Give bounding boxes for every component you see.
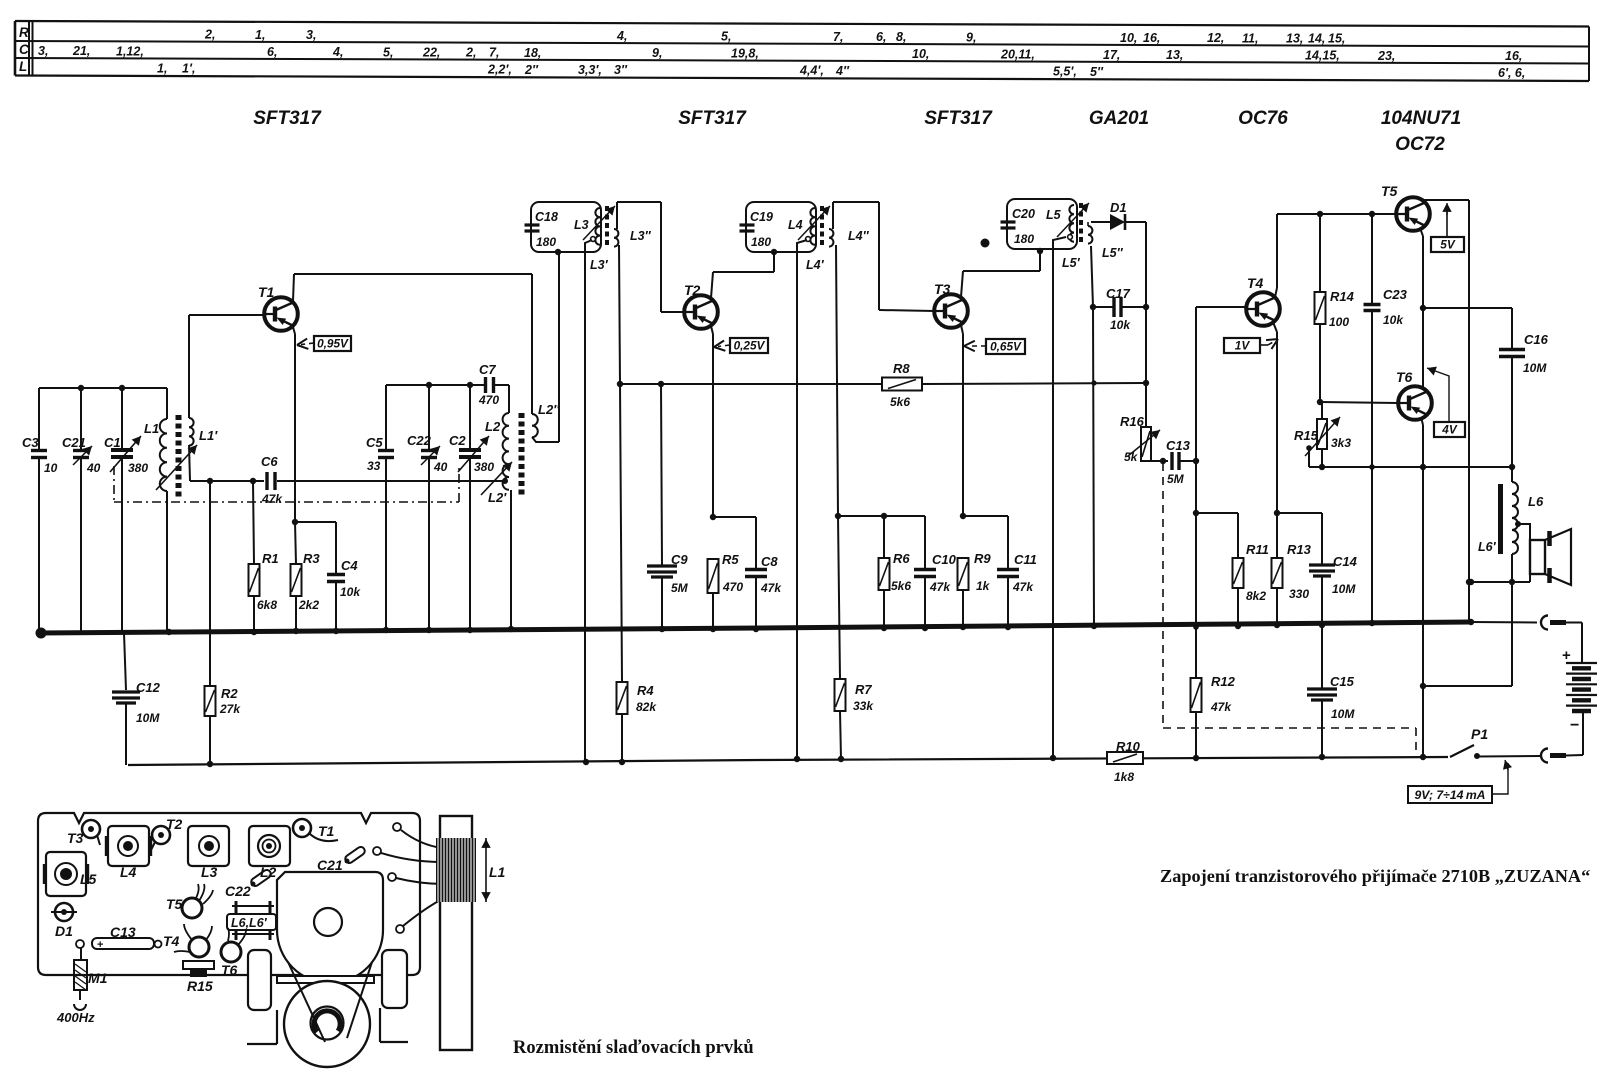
svg-text:13,: 13, <box>1166 48 1183 62</box>
svg-text:9,: 9, <box>652 46 662 60</box>
svg-text:L4″: L4″ <box>848 229 870 243</box>
PCB resistor R15 <box>183 961 214 994</box>
svg-text:L2′: L2′ <box>488 490 507 505</box>
svg-text:D1: D1 <box>1110 200 1127 215</box>
svg-text:380: 380 <box>128 461 148 475</box>
wire: T2 base <box>661 311 685 313</box>
svg-text:180: 180 <box>1014 232 1034 246</box>
wire: top rail to T5 base <box>1277 211 1397 217</box>
wire: oscillator circuit top line <box>386 384 485 386</box>
svg-text:1k: 1k <box>976 579 991 593</box>
svg-text:180: 180 <box>751 235 771 249</box>
svg-text:L3: L3 <box>201 864 218 880</box>
PCB trimmer T1 with wire <box>293 819 338 841</box>
capacitor C12 <box>112 680 161 765</box>
svg-text:5V: 5V <box>1440 238 1456 252</box>
svg-text:R15: R15 <box>187 978 213 994</box>
svg-text:+: + <box>97 939 103 951</box>
wire: T1 base to L1' <box>189 314 265 316</box>
IF transformer box 3 outline <box>1007 199 1077 249</box>
tap on L3 to lower rail (L3') <box>585 237 609 763</box>
svg-text:11,: 11, <box>1242 31 1258 45</box>
svg-text:380: 380 <box>474 460 494 474</box>
core of L1 <box>176 415 182 497</box>
wire: R6/C10 top line <box>838 513 925 519</box>
svg-text:T1: T1 <box>258 284 275 300</box>
core of L5 <box>1079 203 1083 244</box>
resistor R10 (in lower rail) <box>1107 739 1143 784</box>
inductor L3'' <box>614 229 652 247</box>
resistor R12 <box>1191 674 1236 761</box>
svg-text:C6: C6 <box>261 454 278 469</box>
mechanical link dashes (R16 to P1) <box>1163 463 1416 752</box>
svg-text:C: C <box>19 42 29 57</box>
svg-text:M1: M1 <box>88 970 108 986</box>
svg-text:T3: T3 <box>67 830 84 846</box>
svg-text:R10: R10 <box>1116 739 1141 754</box>
wire: L3'' top to T2 base <box>617 202 661 312</box>
capacitor C2 (tuning gang) <box>449 385 494 630</box>
wire: T3 emitter down to R9 node <box>960 325 966 519</box>
capacitor C19 <box>740 210 773 249</box>
svg-text:9V; 7÷14 mA: 9V; 7÷14 mA <box>1414 788 1485 802</box>
svg-text:5k6: 5k6 <box>890 395 910 409</box>
connector (bus to battery plus) <box>1471 616 1582 630</box>
svg-text:C8: C8 <box>761 554 778 569</box>
arrow through L1 (adjustable core) <box>156 445 197 490</box>
svg-text:R2: R2 <box>221 686 238 701</box>
resistor R13 <box>1272 542 1312 625</box>
wire: T3 base <box>879 310 935 311</box>
svg-text:Zapojení tranzistorového přijí: Zapojení tranzistorového přijímače 2710B… <box>1160 866 1590 886</box>
transistor T5 <box>1381 183 1430 231</box>
PCB pot core L4 <box>106 826 151 880</box>
svg-text:16,: 16, <box>1143 31 1160 45</box>
capacitor C16 <box>1423 308 1549 470</box>
resistor R5 <box>708 552 744 629</box>
capacitor C9 <box>647 384 689 629</box>
battery B1 <box>1562 623 1597 756</box>
wire: T4 base down through R12 <box>1193 307 1247 678</box>
svg-text:470: 470 <box>722 580 743 594</box>
PCB right bracket <box>380 950 408 1042</box>
junction dots on lower rail <box>583 759 589 765</box>
svg-text:82k: 82k <box>636 700 657 714</box>
svg-text:33k: 33k <box>853 699 874 713</box>
svg-text:L1′: L1′ <box>199 428 218 443</box>
svg-text:14,: 14, <box>1308 32 1325 46</box>
svg-text:1,: 1, <box>255 28 265 42</box>
inductor L1 (ferrite antenna primary) <box>144 388 167 633</box>
capacitor C3 <box>22 388 58 633</box>
PCB dial pulley <box>284 962 372 1067</box>
svg-text:19,8,: 19,8, <box>731 47 759 61</box>
svg-text:R7: R7 <box>855 682 872 697</box>
svg-text:15,: 15, <box>1328 32 1345 46</box>
resistor R14 <box>1315 214 1355 405</box>
capacitor C18 <box>525 210 558 249</box>
capacitor C10 <box>914 516 957 628</box>
svg-text:Rozmistění slaďovacích prvků: Rozmistění slaďovacích prvků <box>513 1038 754 1058</box>
PCB transistor T6 <box>221 928 246 978</box>
PCB diode D1 <box>51 903 77 939</box>
svg-text:5k6: 5k6 <box>891 579 911 593</box>
core of L3 <box>605 206 609 247</box>
svg-text:1,: 1, <box>157 61 167 75</box>
PCB trimmer C22 pair <box>225 845 366 899</box>
svg-text:1k8: 1k8 <box>1114 770 1134 784</box>
PCB tuning capacitor C21 <box>277 857 383 983</box>
svg-text:L6: L6 <box>1528 494 1544 509</box>
inductor L3 <box>574 208 600 245</box>
junction dots on antenna top line <box>78 385 125 391</box>
svg-text:3,: 3, <box>306 28 316 42</box>
svg-text:47k: 47k <box>929 580 951 594</box>
wire: T2 collector up to IF2 box <box>711 249 777 298</box>
svg-text:10: 10 <box>44 461 58 475</box>
svg-text:C15: C15 <box>1330 674 1355 689</box>
wire: speaker return to bus <box>1468 579 1530 585</box>
svg-text:R14: R14 <box>1330 289 1355 304</box>
resistor R7 <box>794 679 875 762</box>
transistor T6 <box>1396 369 1432 420</box>
capacitor C8 <box>713 517 782 629</box>
svg-text:2,: 2, <box>204 28 215 42</box>
svg-text:C7: C7 <box>479 362 496 377</box>
svg-text:L6,L6′: L6,L6′ <box>231 916 268 930</box>
inductor L1' (antenna coupling winding) <box>189 315 218 481</box>
svg-text:R16: R16 <box>1120 414 1145 429</box>
svg-text:40: 40 <box>86 461 101 475</box>
svg-text:1′,: 1′, <box>182 62 195 76</box>
svg-text:T4: T4 <box>163 933 180 949</box>
speaker <box>1530 529 1571 585</box>
wire: T5 emitter down to T6 collector <box>1420 228 1426 387</box>
wire: L6 bottom to T6 emitter line <box>1423 685 1512 687</box>
capacitor C7 <box>478 362 499 407</box>
PCB pot core L5 <box>44 852 97 896</box>
svg-text:L3′: L3′ <box>590 258 609 272</box>
svg-text:R8: R8 <box>893 361 910 376</box>
table row R entries <box>204 28 1345 46</box>
svg-text:R15: R15 <box>1294 428 1319 443</box>
svg-text:10M: 10M <box>136 711 160 725</box>
resistor R4 <box>617 682 658 765</box>
svg-text:8k2: 8k2 <box>1246 589 1266 603</box>
svg-text:R11: R11 <box>1246 542 1269 557</box>
svg-text:1V: 1V <box>1235 339 1251 353</box>
svg-text:21,: 21, <box>72 44 90 58</box>
inductor L5 <box>1046 205 1074 242</box>
svg-text:C2: C2 <box>449 433 466 448</box>
svg-text:2″: 2″ <box>524 63 539 77</box>
svg-text:0,25V: 0,25V <box>734 339 766 353</box>
svg-text:L5″: L5″ <box>1102 246 1124 260</box>
svg-text:R5: R5 <box>722 552 739 567</box>
svg-text:T5: T5 <box>166 896 183 912</box>
svg-text:C13: C13 <box>1166 438 1191 453</box>
junction dots on oscillator top line <box>426 382 473 388</box>
svg-text:OC72: OC72 <box>1395 134 1445 155</box>
arrow through L3 <box>583 206 615 240</box>
PCB microphone M1 <box>56 948 108 1025</box>
label box 9V 7-14mA <box>1408 760 1512 803</box>
tap wire from L6 to speaker <box>1515 521 1530 540</box>
resistor R6 <box>879 516 912 628</box>
svg-text:4,4′,: 4,4′, <box>799 64 824 78</box>
svg-text:R1: R1 <box>262 551 279 566</box>
svg-text:0,95V: 0,95V <box>317 337 349 351</box>
svg-text:SFT317: SFT317 <box>678 108 747 129</box>
PCB transistor T5 <box>166 884 213 918</box>
svg-text:6′, 6,: 6′, 6, <box>1498 66 1525 80</box>
svg-text:16,: 16, <box>1505 49 1522 63</box>
svg-text:47k: 47k <box>760 581 782 595</box>
wire: T6 emitter down to lower rail <box>1420 417 1426 760</box>
capacitor C23 <box>1364 214 1408 622</box>
svg-text:5k: 5k <box>1124 450 1139 464</box>
PCB pot core L2 <box>249 826 290 880</box>
svg-text:C20: C20 <box>1012 207 1035 221</box>
wire: T3 collector up to IF3 box <box>961 248 1043 297</box>
svg-text:T6: T6 <box>221 962 238 978</box>
svg-text:OC76: OC76 <box>1238 108 1288 129</box>
capacitor C22 (trimmer) <box>407 385 448 630</box>
svg-text:4V: 4V <box>1441 423 1458 437</box>
svg-text:T3: T3 <box>934 281 951 297</box>
svg-text:T1: T1 <box>318 823 335 839</box>
svg-text:5,: 5, <box>721 29 731 43</box>
svg-text:8,: 8, <box>896 30 906 44</box>
svg-text:C12: C12 <box>136 680 161 695</box>
svg-text:L: L <box>19 59 27 74</box>
junction dot under IF1 box <box>555 249 561 255</box>
wire: T2 emitter down to R5 node <box>710 326 716 520</box>
svg-text:27k: 27k <box>219 702 241 716</box>
svg-text:10,: 10, <box>1120 31 1137 45</box>
svg-text:20,11,: 20,11, <box>1000 47 1035 61</box>
capacitor C17 <box>1093 286 1146 332</box>
svg-text:C21: C21 <box>317 857 343 873</box>
svg-text:R12: R12 <box>1211 674 1236 689</box>
svg-text:L5: L5 <box>80 871 97 887</box>
svg-text:L1: L1 <box>144 421 159 436</box>
svg-text:SFT317: SFT317 <box>253 108 322 129</box>
svg-text:C13: C13 <box>110 924 136 940</box>
core of L4 <box>820 206 824 247</box>
arrow through L5 <box>1057 203 1089 237</box>
svg-text:R: R <box>19 25 29 40</box>
PCB trimmer T2 <box>150 816 183 852</box>
resistor R11 <box>1196 513 1269 626</box>
svg-text:10k: 10k <box>1110 318 1131 332</box>
svg-text:2,2′,: 2,2′, <box>487 63 512 77</box>
inductor L2'' (oscillator coupling top) <box>532 253 560 442</box>
svg-text:P1: P1 <box>1471 726 1488 742</box>
inductor L4 <box>788 208 815 245</box>
PCB trimmer T3 <box>67 820 100 846</box>
capacitor C6 <box>261 454 503 506</box>
resistor R3 <box>291 522 321 631</box>
svg-text:40: 40 <box>433 460 448 474</box>
svg-text:C17: C17 <box>1106 286 1131 301</box>
svg-text:T6: T6 <box>1396 369 1413 385</box>
svg-text:3,: 3, <box>38 44 48 58</box>
capacitor C4 <box>295 522 361 631</box>
wire: L3'' bottom down to R4 and R8 node <box>617 245 623 682</box>
wire: C1 line down to C12 <box>124 633 126 690</box>
voltage box 5V at T5 collector <box>1431 203 1464 252</box>
svg-text:12,: 12, <box>1207 31 1224 45</box>
inductor L5'' <box>1088 226 1124 260</box>
svg-text:C10: C10 <box>932 552 957 567</box>
svg-text:14,15,: 14,15, <box>1305 49 1340 63</box>
svg-text:L2: L2 <box>485 419 501 434</box>
inductor L2 (oscillator primary) <box>485 413 511 628</box>
svg-text:47k: 47k <box>1012 580 1034 594</box>
capacitor C14 <box>1277 513 1358 625</box>
table row C entries <box>38 44 1522 63</box>
svg-text:T2: T2 <box>166 816 183 832</box>
stray dot <box>981 239 990 248</box>
PCB ferrite rod L1 <box>436 816 506 1050</box>
svg-text:47k: 47k <box>1210 700 1232 714</box>
svg-text:L4: L4 <box>788 218 803 232</box>
IF transformer box 1 outline <box>531 202 601 252</box>
svg-text:22,: 22, <box>422 45 440 59</box>
wire: T5 collector to output vertical <box>1420 200 1472 622</box>
svg-text:R6: R6 <box>893 551 910 566</box>
inductor L6 (output choke) <box>1509 467 1544 686</box>
svg-text:2k2: 2k2 <box>298 598 319 612</box>
wire: T4 emitter down to R13 <box>1273 322 1280 558</box>
svg-text:5M: 5M <box>1167 472 1185 486</box>
svg-text:C5: C5 <box>366 435 383 450</box>
IF transformer box 2 outline <box>746 202 816 252</box>
wire: T1 collector up and across to L2 secondary <box>293 274 532 414</box>
PCB capacitor mounting bar <box>277 976 374 983</box>
core bar of L6 (L6') <box>1478 484 1501 554</box>
svg-text:18,: 18, <box>524 46 541 60</box>
svg-text:L5: L5 <box>1046 208 1062 222</box>
wire: T4 collector up to top rail <box>1275 214 1277 297</box>
svg-text:C3: C3 <box>22 435 39 450</box>
svg-text:C14: C14 <box>1333 554 1358 569</box>
svg-text:5″: 5″ <box>1090 65 1104 79</box>
wire: detector output vertical <box>1143 222 1149 383</box>
svg-text:4,: 4, <box>332 45 343 59</box>
svg-text:C22: C22 <box>407 433 432 448</box>
wire: L5'' bottom to bus <box>1090 246 1096 626</box>
tap on L5 to lower rail (L5') <box>1050 235 1081 762</box>
svg-text:C18: C18 <box>535 210 558 224</box>
svg-text:4,: 4, <box>616 29 627 43</box>
wire: lower bias rail <box>128 757 1448 765</box>
svg-text:R3: R3 <box>303 551 320 566</box>
svg-text:T2: T2 <box>684 282 701 298</box>
capacitor C13 <box>1166 438 1199 486</box>
capacitor C1 (tuning gang) <box>104 388 148 633</box>
transistor T2 <box>684 282 718 329</box>
svg-text:3″: 3″ <box>614 63 628 77</box>
svg-text:10M: 10M <box>1331 707 1355 721</box>
mechanical link dashes (tuning gang C1-C2) <box>114 466 459 502</box>
svg-text:13,: 13, <box>1286 31 1303 45</box>
resistor R9 <box>958 551 992 627</box>
svg-text:L6′: L6′ <box>1478 540 1497 554</box>
svg-text:GA201: GA201 <box>1089 108 1149 129</box>
diode D1 <box>1088 200 1146 230</box>
arrow through L4 <box>798 206 830 240</box>
svg-text:SFT317: SFT317 <box>924 108 993 129</box>
svg-text:104NU71: 104NU71 <box>1381 108 1461 129</box>
svg-text:R13: R13 <box>1287 542 1312 557</box>
svg-text:L2″: L2″ <box>538 402 560 417</box>
svg-text:C9: C9 <box>671 552 688 567</box>
svg-text:470: 470 <box>478 393 499 407</box>
switch P1 <box>1450 726 1488 759</box>
svg-text:L4′: L4′ <box>806 258 825 272</box>
tap on L4 to lower rail (L4') <box>797 237 825 759</box>
transistor T1 <box>258 284 298 331</box>
svg-text:400Hz: 400Hz <box>56 1010 95 1025</box>
wire: L1' bottom line down to R2 <box>209 481 211 686</box>
svg-text:L4: L4 <box>120 864 137 880</box>
PCB capacitor C13 <box>76 924 162 951</box>
voltage box 0,95V at T1 emitter <box>297 336 351 351</box>
svg-text:33: 33 <box>367 459 381 473</box>
svg-text:C19: C19 <box>750 210 773 224</box>
capacitor C21 (trimmer) <box>62 388 101 633</box>
voltage box 0,65V at T3 emitter <box>964 339 1025 354</box>
PCB transformer L6 block <box>227 901 276 940</box>
transistor T3 <box>934 281 968 328</box>
capacitor C20 <box>1001 207 1035 246</box>
svg-text:10M: 10M <box>1332 582 1356 596</box>
svg-text:17,: 17, <box>1103 48 1120 62</box>
svg-text:C11: C11 <box>1014 552 1037 567</box>
tap and arrow on L2 (L2') <box>481 462 512 505</box>
wire: feedback rail y=467 <box>1309 466 1513 468</box>
svg-text:180: 180 <box>536 235 556 249</box>
svg-text:4″: 4″ <box>835 64 850 78</box>
svg-text:100: 100 <box>1329 315 1349 329</box>
capacitor C5 <box>366 385 394 630</box>
svg-text:L3: L3 <box>574 218 589 232</box>
svg-text:R4: R4 <box>637 683 654 698</box>
svg-text:330: 330 <box>1289 587 1309 601</box>
svg-text:23,: 23, <box>1377 49 1395 63</box>
wire: main bus (thick horizontal) <box>38 622 1471 633</box>
wire: L1' bottom to C6 line <box>190 478 264 484</box>
svg-text:C16: C16 <box>1524 332 1549 347</box>
table row L entries <box>157 61 1525 80</box>
voltage box 4V at T6 collector <box>1427 367 1465 437</box>
svg-text:1,12,: 1,12, <box>116 44 144 58</box>
wire: antenna circuit top line <box>39 387 167 389</box>
svg-text:0,65V: 0,65V <box>990 340 1022 354</box>
svg-text:+: + <box>1562 647 1571 664</box>
resistor R1 <box>249 481 279 631</box>
PCB hookup wires to rod <box>373 823 444 933</box>
svg-text:7,: 7, <box>489 46 499 60</box>
transistor T4 <box>1246 275 1280 326</box>
svg-text:3k3: 3k3 <box>1331 436 1351 450</box>
resistor R2 <box>205 686 242 767</box>
svg-text:2,: 2, <box>465 46 476 60</box>
svg-text:10k: 10k <box>1383 313 1404 327</box>
resistor R8 line (AGC) <box>620 361 1149 409</box>
